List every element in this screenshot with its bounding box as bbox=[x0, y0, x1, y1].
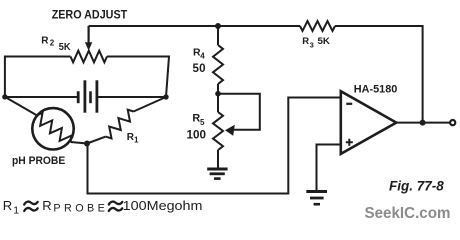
svg-text:5K: 5K bbox=[59, 42, 72, 53]
svg-text:100: 100 bbox=[187, 128, 207, 142]
svg-text:R: R bbox=[42, 198, 51, 213]
svg-text:2: 2 bbox=[50, 39, 55, 48]
svg-text:HA-5180: HA-5180 bbox=[354, 84, 398, 96]
svg-text:50: 50 bbox=[193, 63, 206, 75]
svg-text:5K: 5K bbox=[318, 36, 331, 47]
svg-text:100Megohm: 100Megohm bbox=[123, 198, 203, 213]
svg-text:PROBE: PROBE bbox=[53, 203, 108, 215]
svg-text:1: 1 bbox=[13, 205, 19, 217]
svg-text:ZERO ADJUST: ZERO ADJUST bbox=[52, 7, 128, 21]
svg-text:Fig. 77-8: Fig. 77-8 bbox=[389, 179, 444, 194]
svg-text:1: 1 bbox=[134, 136, 139, 145]
svg-text:5: 5 bbox=[200, 118, 205, 127]
svg-text:SeekIC.com: SeekIC.com bbox=[365, 205, 451, 222]
svg-text:R: R bbox=[302, 36, 309, 47]
svg-text:4: 4 bbox=[200, 52, 205, 61]
svg-text:R: R bbox=[41, 35, 49, 46]
svg-text:R: R bbox=[3, 198, 12, 213]
svg-text:pH PROBE: pH PROBE bbox=[12, 155, 65, 167]
svg-text:3: 3 bbox=[310, 41, 314, 50]
